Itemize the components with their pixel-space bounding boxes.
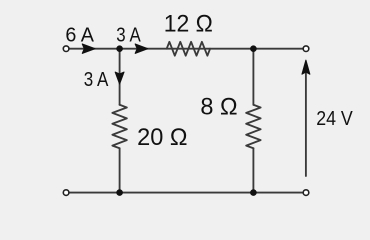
voltage arrow 24 V shaft (305, 73, 307, 177)
node junction bottom-right (250, 189, 257, 196)
wire middle branch upper segment (119, 49, 121, 105)
svg-text:8 Ω: 8 Ω (200, 94, 237, 121)
resistor 8 Ω (zigzag) (246, 105, 260, 149)
resistor 20 Ω (zigzag) (112, 105, 126, 149)
open terminal bottom-right (303, 190, 309, 196)
svg-text:24 V: 24 V (316, 107, 353, 130)
open terminal bottom-left (63, 190, 69, 196)
wire bottom rail (69, 192, 303, 194)
wire right branch lower segment (252, 148, 254, 192)
svg-text:12 Ω: 12 Ω (164, 11, 213, 38)
open terminal top-right (303, 46, 309, 52)
wire top rail (69, 48, 303, 50)
current arrowhead 6 A (82, 44, 95, 53)
wire right branch upper segment (252, 49, 254, 105)
node junction bottom-left (116, 189, 123, 196)
node junction top-right (250, 45, 257, 52)
node junction top-left (116, 45, 123, 52)
current arrowhead 3 A (down branch) (115, 72, 124, 84)
wire middle branch lower segment (119, 148, 121, 192)
svg-text:20 Ω: 20 Ω (137, 124, 187, 151)
voltage arrowhead 24 V (302, 60, 310, 74)
svg-text:3 A: 3 A (84, 68, 109, 91)
resistor 12 Ω (zigzag) (167, 42, 210, 56)
svg-text:3 A: 3 A (116, 24, 141, 47)
svg-text:6 A: 6 A (65, 24, 94, 47)
open terminal top-left (63, 46, 69, 52)
current arrowhead 3 A (top) (135, 44, 147, 53)
